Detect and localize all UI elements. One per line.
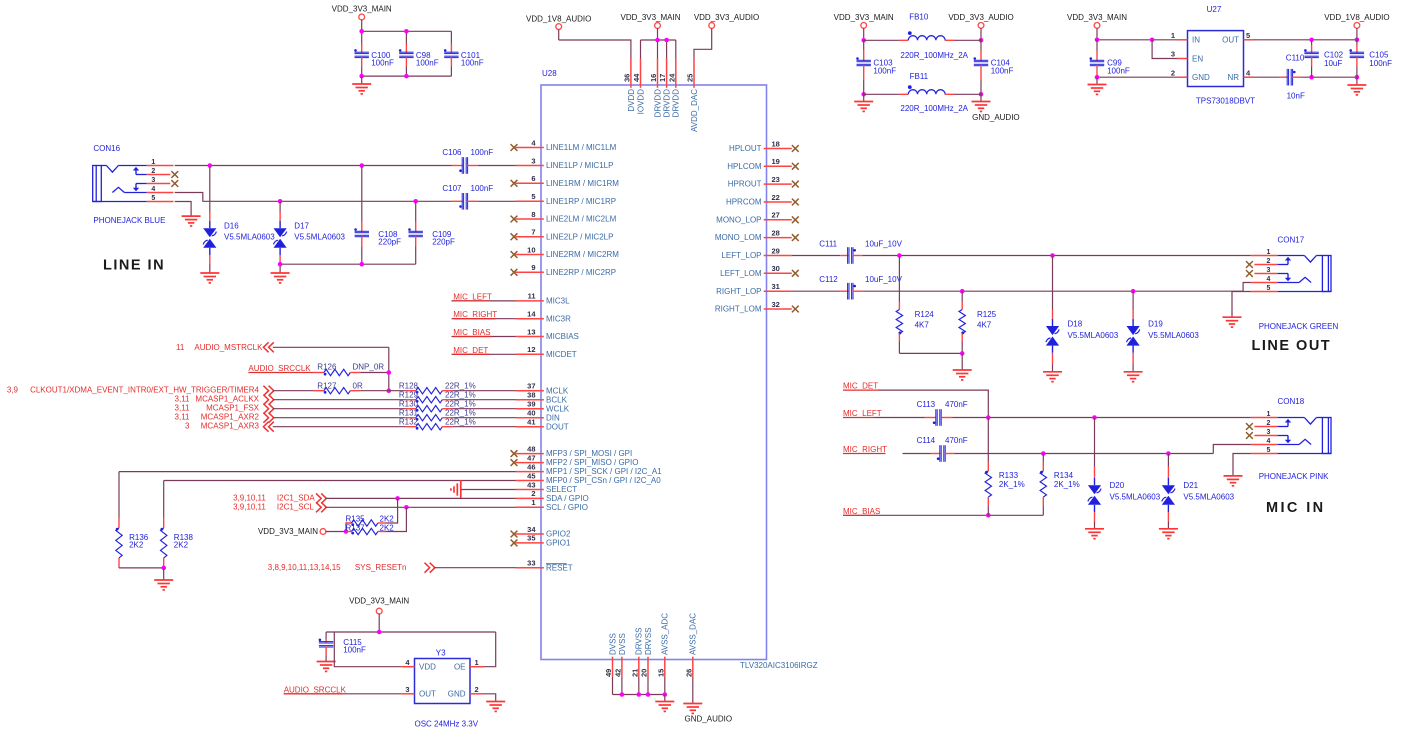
- svg-text:7: 7: [531, 228, 535, 237]
- svg-text:VDD_3V3_MAIN: VDD_3V3_MAIN: [834, 13, 894, 22]
- svg-text:EN: EN: [1192, 54, 1203, 63]
- svg-text:MIC_RIGHT: MIC_RIGHT: [453, 310, 497, 319]
- svg-text:38: 38: [527, 391, 535, 400]
- svg-text:MIC3L: MIC3L: [546, 297, 570, 306]
- svg-text:29: 29: [772, 246, 780, 255]
- svg-text:3: 3: [1171, 50, 1175, 59]
- svg-text:LINE2RM / MIC2RM: LINE2RM / MIC2RM: [546, 250, 619, 259]
- svg-text:BCLK: BCLK: [546, 395, 568, 404]
- svg-text:220R_100MHz_2A: 220R_100MHz_2A: [900, 104, 968, 113]
- svg-text:2K_1%: 2K_1%: [1054, 480, 1080, 489]
- svg-text:1: 1: [531, 498, 535, 507]
- svg-text:4: 4: [1267, 438, 1271, 445]
- svg-text:2K2: 2K2: [129, 541, 144, 550]
- svg-text:VDD_3V3_MAIN: VDD_3V3_MAIN: [1067, 13, 1127, 22]
- svg-text:MCASP1_AXR3: MCASP1_AXR3: [201, 422, 260, 431]
- svg-text:MFP2 / SPI_MISO / GPIO: MFP2 / SPI_MISO / GPIO: [546, 458, 638, 467]
- svg-text:RIGHT_LOM: RIGHT_LOM: [715, 305, 762, 314]
- svg-text:VDD_3V3_MAIN: VDD_3V3_MAIN: [258, 527, 318, 536]
- svg-text:2: 2: [1171, 68, 1175, 77]
- svg-text:I2C1_SDA: I2C1_SDA: [277, 494, 315, 503]
- svg-text:LINE2LM / MIC2LM: LINE2LM / MIC2LM: [546, 215, 617, 224]
- svg-text:3: 3: [405, 685, 409, 694]
- svg-text:R137: R137: [346, 524, 366, 533]
- svg-text:PHONEJACK PINK: PHONEJACK PINK: [1259, 472, 1329, 481]
- svg-text:3: 3: [1267, 267, 1271, 274]
- svg-text:22R_1%: 22R_1%: [445, 391, 476, 400]
- svg-text:GPIO2: GPIO2: [546, 530, 571, 539]
- svg-text:U27: U27: [1207, 5, 1222, 14]
- svg-text:43: 43: [527, 480, 535, 489]
- svg-text:DVDD: DVDD: [627, 89, 636, 112]
- svg-text:LEFT_LOM: LEFT_LOM: [720, 269, 762, 278]
- svg-text:OUT: OUT: [1222, 35, 1239, 44]
- svg-text:MIC_DET: MIC_DET: [453, 346, 488, 355]
- svg-text:MONO_LOP: MONO_LOP: [716, 215, 761, 224]
- svg-text:V5.5MLA0603: V5.5MLA0603: [1148, 331, 1199, 340]
- svg-text:C110: C110: [1286, 54, 1305, 63]
- svg-text:TPS73018DBVT: TPS73018DBVT: [1196, 96, 1255, 105]
- svg-text:SELECT: SELECT: [546, 485, 577, 494]
- svg-text:3,11: 3,11: [175, 395, 191, 404]
- svg-text:2: 2: [475, 685, 479, 694]
- svg-text:11: 11: [528, 292, 536, 301]
- svg-text:2: 2: [151, 168, 155, 175]
- svg-text:100nF: 100nF: [343, 646, 366, 655]
- svg-text:100nF: 100nF: [471, 184, 494, 193]
- svg-text:27: 27: [772, 211, 780, 220]
- svg-text:22R_1%: 22R_1%: [445, 400, 476, 409]
- svg-text:GND: GND: [1192, 73, 1210, 82]
- svg-text:MIC IN: MIC IN: [1266, 500, 1326, 516]
- svg-text:AVSS_DAC: AVSS_DAC: [689, 613, 698, 655]
- svg-text:FB11: FB11: [910, 72, 929, 81]
- svg-text:DVSS: DVSS: [608, 633, 617, 655]
- svg-text:33: 33: [527, 559, 535, 568]
- svg-text:1: 1: [1267, 411, 1271, 418]
- svg-text:I2C1_SCL: I2C1_SCL: [277, 502, 314, 511]
- svg-text:3,8,9,10,11,13,14,15: 3,8,9,10,11,13,14,15: [268, 563, 341, 572]
- svg-text:36: 36: [622, 74, 631, 82]
- svg-text:R134: R134: [1054, 471, 1074, 480]
- svg-text:3: 3: [151, 177, 155, 184]
- svg-text:LINE IN: LINE IN: [103, 258, 165, 274]
- svg-text:D16: D16: [224, 222, 239, 231]
- svg-text:C106: C106: [442, 148, 462, 157]
- svg-text:100nF: 100nF: [416, 59, 439, 68]
- svg-text:22R_1%: 22R_1%: [445, 409, 476, 418]
- svg-text:31: 31: [772, 282, 780, 291]
- svg-text:3,11: 3,11: [175, 413, 191, 422]
- svg-text:4K7: 4K7: [915, 320, 930, 329]
- svg-text:1: 1: [1171, 31, 1175, 40]
- svg-text:R124: R124: [915, 310, 935, 319]
- svg-text:D21: D21: [1183, 481, 1198, 490]
- svg-text:47: 47: [527, 453, 535, 462]
- svg-text:HPLOUT: HPLOUT: [729, 144, 762, 153]
- svg-text:C111: C111: [819, 240, 837, 249]
- svg-text:5: 5: [1267, 285, 1271, 292]
- svg-text:LEFT_LOP: LEFT_LOP: [721, 251, 761, 260]
- svg-text:R131: R131: [399, 409, 419, 418]
- svg-text:V5.5MLA0603: V5.5MLA0603: [224, 232, 275, 241]
- svg-text:LINE2LP / MIC2LP: LINE2LP / MIC2LP: [546, 232, 613, 241]
- svg-text:V5.5MLA0603: V5.5MLA0603: [1068, 331, 1119, 340]
- svg-text:R129: R129: [399, 391, 419, 400]
- svg-text:FB10: FB10: [909, 13, 929, 22]
- svg-text:AUDIO_SRCCLK: AUDIO_SRCCLK: [248, 364, 311, 373]
- svg-text:3: 3: [1267, 429, 1271, 436]
- svg-text:D19: D19: [1148, 319, 1163, 328]
- svg-text:WCLK: WCLK: [546, 404, 570, 413]
- svg-text:D17: D17: [294, 222, 309, 231]
- svg-text:25: 25: [686, 74, 695, 82]
- svg-text:22R_1%: 22R_1%: [445, 418, 476, 427]
- svg-text:46: 46: [527, 462, 535, 471]
- svg-text:3: 3: [185, 422, 190, 431]
- svg-text:10uF_10V: 10uF_10V: [865, 240, 903, 249]
- svg-text:10: 10: [527, 245, 535, 254]
- svg-text:LINE1RM / MIC1RM: LINE1RM / MIC1RM: [546, 179, 619, 188]
- svg-text:PHONEJACK GREEN: PHONEJACK GREEN: [1259, 322, 1339, 331]
- svg-text:R127: R127: [317, 382, 337, 391]
- svg-text:MICBIAS: MICBIAS: [546, 332, 579, 341]
- svg-text:GPIO1: GPIO1: [546, 539, 571, 548]
- svg-text:PHONEJACK BLUE: PHONEJACK BLUE: [93, 216, 165, 225]
- svg-text:44: 44: [632, 73, 641, 82]
- svg-text:5: 5: [1267, 447, 1271, 454]
- svg-text:MCLK: MCLK: [546, 386, 569, 395]
- svg-text:MONO_LOM: MONO_LOM: [715, 233, 762, 242]
- svg-text:30: 30: [772, 264, 780, 273]
- svg-text:VDD_3V3_MAIN: VDD_3V3_MAIN: [620, 13, 680, 22]
- svg-text:DRVDD: DRVDD: [672, 89, 681, 118]
- svg-text:MIC_LEFT: MIC_LEFT: [453, 292, 492, 301]
- svg-text:100nF: 100nF: [471, 148, 494, 157]
- svg-text:45: 45: [527, 471, 535, 480]
- svg-text:VDD_3V3_AUDIO: VDD_3V3_AUDIO: [694, 13, 759, 22]
- svg-text:11: 11: [176, 343, 185, 352]
- svg-text:40: 40: [527, 409, 535, 418]
- svg-text:22: 22: [772, 193, 780, 202]
- svg-text:220pF: 220pF: [378, 238, 401, 247]
- svg-text:SDA / GPIO: SDA / GPIO: [546, 494, 589, 503]
- svg-text:IOVDD: IOVDD: [636, 89, 645, 115]
- svg-text:LINE OUT: LINE OUT: [1252, 338, 1332, 354]
- svg-text:CON16: CON16: [93, 144, 120, 153]
- svg-text:AVDD_DAC: AVDD_DAC: [690, 89, 699, 132]
- svg-text:3,11: 3,11: [175, 404, 191, 413]
- svg-text:VDD: VDD: [419, 663, 436, 672]
- svg-text:R135: R135: [346, 515, 366, 524]
- svg-text:19: 19: [772, 157, 780, 166]
- svg-text:49: 49: [604, 669, 613, 677]
- svg-text:VDD_3V3_MAIN: VDD_3V3_MAIN: [332, 5, 392, 14]
- svg-text:MCASP1_ACLKX: MCASP1_ACLKX: [195, 395, 259, 404]
- svg-text:3,9,10,11: 3,9,10,11: [233, 494, 266, 503]
- svg-text:GND_AUDIO: GND_AUDIO: [972, 113, 1020, 122]
- svg-text:2: 2: [1267, 420, 1271, 427]
- svg-text:SCL / GPIO: SCL / GPIO: [546, 503, 588, 512]
- svg-text:18: 18: [772, 139, 780, 148]
- svg-text:R133: R133: [999, 471, 1019, 480]
- svg-text:2K2: 2K2: [380, 515, 395, 524]
- svg-text:10uF: 10uF: [1324, 59, 1342, 68]
- svg-text:MFP0 / SPI_CSn / GPI / I2C_A0: MFP0 / SPI_CSn / GPI / I2C_A0: [546, 476, 661, 485]
- svg-text:4: 4: [1267, 276, 1271, 283]
- svg-text:MIC_RIGHT: MIC_RIGHT: [843, 445, 887, 454]
- svg-text:TLV320AIC3106IRGZ: TLV320AIC3106IRGZ: [740, 661, 818, 670]
- svg-text:8: 8: [531, 210, 535, 219]
- svg-text:V5.5MLA0603: V5.5MLA0603: [1183, 493, 1234, 502]
- svg-text:100nF: 100nF: [461, 59, 484, 68]
- svg-text:2: 2: [1267, 258, 1271, 265]
- svg-text:1: 1: [475, 658, 479, 667]
- svg-text:R128: R128: [399, 382, 419, 391]
- svg-text:100nF: 100nF: [873, 66, 896, 75]
- svg-text:C107: C107: [442, 184, 462, 193]
- svg-text:22R_1%: 22R_1%: [445, 382, 476, 391]
- svg-text:14: 14: [527, 310, 536, 319]
- svg-text:NR: NR: [1227, 73, 1239, 82]
- svg-text:4K7: 4K7: [977, 320, 992, 329]
- svg-text:MFP3 / SPI_MOSI / GPI: MFP3 / SPI_MOSI / GPI: [546, 449, 632, 458]
- svg-text:CON17: CON17: [1278, 236, 1305, 245]
- svg-text:41: 41: [527, 418, 535, 427]
- svg-text:42: 42: [613, 669, 622, 677]
- svg-text:LINE1LM / MIC1LM: LINE1LM / MIC1LM: [546, 143, 617, 152]
- svg-text:5: 5: [531, 192, 535, 201]
- svg-text:C112: C112: [819, 275, 838, 284]
- svg-text:2K2: 2K2: [174, 541, 189, 550]
- svg-text:DRVSS: DRVSS: [644, 628, 653, 655]
- svg-text:MIC3R: MIC3R: [546, 314, 571, 323]
- svg-text:17: 17: [658, 74, 667, 82]
- svg-text:LINE1RP / MIC1RP: LINE1RP / MIC1RP: [546, 197, 616, 206]
- svg-text:CON18: CON18: [1278, 397, 1305, 406]
- svg-text:D20: D20: [1110, 481, 1125, 490]
- svg-text:28: 28: [772, 228, 780, 237]
- svg-text:48: 48: [527, 444, 535, 453]
- svg-text:37: 37: [527, 382, 535, 391]
- svg-text:4: 4: [151, 186, 155, 193]
- svg-text:10uF_10V: 10uF_10V: [865, 275, 903, 284]
- svg-text:LINE1LP / MIC1LP: LINE1LP / MIC1LP: [546, 161, 613, 170]
- svg-text:220R_100MHz_2A: 220R_100MHz_2A: [900, 51, 968, 60]
- svg-text:U28: U28: [542, 69, 557, 78]
- svg-text:3,9,10,11: 3,9,10,11: [233, 502, 266, 511]
- svg-text:DRVDD: DRVDD: [663, 89, 672, 118]
- svg-text:RIGHT_LOP: RIGHT_LOP: [716, 287, 761, 296]
- svg-text:OSC 24MHz 3.3V: OSC 24MHz 3.3V: [415, 720, 479, 729]
- svg-text:20: 20: [640, 669, 649, 677]
- svg-text:12: 12: [527, 345, 535, 354]
- svg-text:VDD_1V8_AUDIO: VDD_1V8_AUDIO: [526, 14, 591, 23]
- svg-text:VDD_3V3_MAIN: VDD_3V3_MAIN: [349, 597, 409, 606]
- svg-text:21: 21: [630, 669, 639, 677]
- svg-text:Y3: Y3: [436, 649, 446, 658]
- svg-text:3,9: 3,9: [7, 386, 19, 395]
- svg-text:R125: R125: [977, 310, 997, 319]
- svg-text:MCASP1_AXR2: MCASP1_AXR2: [201, 413, 260, 422]
- svg-text:HPLCOM: HPLCOM: [727, 162, 762, 171]
- svg-text:DRVSS: DRVSS: [635, 628, 644, 655]
- svg-text:23: 23: [772, 175, 780, 184]
- svg-text:100nF: 100nF: [1369, 59, 1392, 68]
- svg-text:10nF: 10nF: [1287, 91, 1305, 100]
- svg-text:VDD_1V8_AUDIO: VDD_1V8_AUDIO: [1324, 13, 1389, 22]
- svg-text:OUT: OUT: [419, 690, 436, 699]
- svg-text:1: 1: [1267, 249, 1271, 256]
- svg-text:SYS_RESETn: SYS_RESETn: [355, 563, 407, 572]
- svg-text:MIC_DET: MIC_DET: [843, 382, 878, 391]
- svg-text:39: 39: [527, 400, 535, 409]
- svg-text:DOUT: DOUT: [546, 422, 569, 431]
- svg-text:GND: GND: [448, 690, 466, 699]
- svg-text:CLKOUT1/XDMA_EVENT_INTR0/EXT_H: CLKOUT1/XDMA_EVENT_INTR0/EXT_HW_TRIGGER/…: [30, 386, 259, 395]
- svg-text:32: 32: [772, 300, 780, 309]
- svg-text:100nF: 100nF: [371, 59, 394, 68]
- svg-text:DVSS: DVSS: [618, 633, 627, 655]
- svg-text:R132: R132: [399, 418, 419, 427]
- svg-text:DIN: DIN: [546, 413, 560, 422]
- svg-text:MCASP1_FSX: MCASP1_FSX: [206, 404, 260, 413]
- svg-text:35: 35: [527, 534, 535, 543]
- svg-text:GND_AUDIO: GND_AUDIO: [685, 715, 733, 724]
- svg-text:MFP1 / SPI_SCK / GPI / I2C_A1: MFP1 / SPI_SCK / GPI / I2C_A1: [546, 467, 662, 476]
- svg-text:MIC_BIAS: MIC_BIAS: [843, 507, 880, 516]
- svg-text:AVSS_ADC: AVSS_ADC: [661, 613, 670, 655]
- svg-text:16: 16: [649, 74, 658, 82]
- svg-text:C114: C114: [917, 436, 936, 445]
- svg-text:3: 3: [531, 156, 535, 165]
- svg-text:AUDIO_MSTRCLK: AUDIO_MSTRCLK: [194, 343, 263, 352]
- svg-text:VDD_3V3_AUDIO: VDD_3V3_AUDIO: [948, 13, 1013, 22]
- svg-text:100nF: 100nF: [991, 66, 1014, 75]
- svg-text:470nF: 470nF: [945, 400, 968, 409]
- svg-text:5: 5: [151, 195, 155, 202]
- svg-text:V5.5MLA0603: V5.5MLA0603: [1110, 493, 1161, 502]
- svg-text:34: 34: [527, 525, 536, 534]
- svg-text:26: 26: [684, 669, 693, 677]
- svg-text:100nF: 100nF: [1107, 66, 1130, 75]
- svg-text:MIC_LEFT: MIC_LEFT: [843, 409, 882, 418]
- svg-text:R126: R126: [317, 363, 337, 372]
- svg-text:2: 2: [531, 489, 535, 498]
- svg-text:1: 1: [151, 159, 155, 166]
- svg-text:IN: IN: [1192, 35, 1200, 44]
- svg-text:MICDET: MICDET: [546, 350, 577, 359]
- svg-text:0R: 0R: [353, 382, 363, 391]
- svg-text:6: 6: [531, 174, 535, 183]
- svg-text:24: 24: [667, 73, 676, 82]
- svg-text:AUDIO_SRCCLK: AUDIO_SRCCLK: [284, 685, 347, 694]
- svg-text:HPROUT: HPROUT: [728, 180, 762, 189]
- svg-text:2K_1%: 2K_1%: [999, 480, 1025, 489]
- svg-text:2K2: 2K2: [380, 524, 395, 533]
- svg-text:R130: R130: [399, 400, 419, 409]
- svg-text:OE: OE: [454, 663, 466, 672]
- svg-text:DRVDD: DRVDD: [653, 89, 662, 118]
- svg-text:V5.5MLA0603: V5.5MLA0603: [294, 232, 345, 241]
- svg-text:LINE2RP / MIC2RP: LINE2RP / MIC2RP: [546, 268, 616, 277]
- svg-text:D18: D18: [1068, 319, 1083, 328]
- svg-text:C113: C113: [917, 400, 936, 409]
- svg-text:220pF: 220pF: [432, 238, 455, 247]
- svg-text:DNP_0R: DNP_0R: [353, 363, 385, 372]
- svg-text:MIC_BIAS: MIC_BIAS: [453, 328, 490, 337]
- svg-text:HPRCOM: HPRCOM: [726, 198, 762, 207]
- svg-text:5: 5: [1246, 31, 1250, 40]
- svg-text:15: 15: [656, 669, 665, 677]
- svg-text:470nF: 470nF: [945, 436, 968, 445]
- svg-text:9: 9: [531, 263, 535, 272]
- svg-text:RESET: RESET: [546, 563, 573, 572]
- svg-text:13: 13: [527, 327, 535, 336]
